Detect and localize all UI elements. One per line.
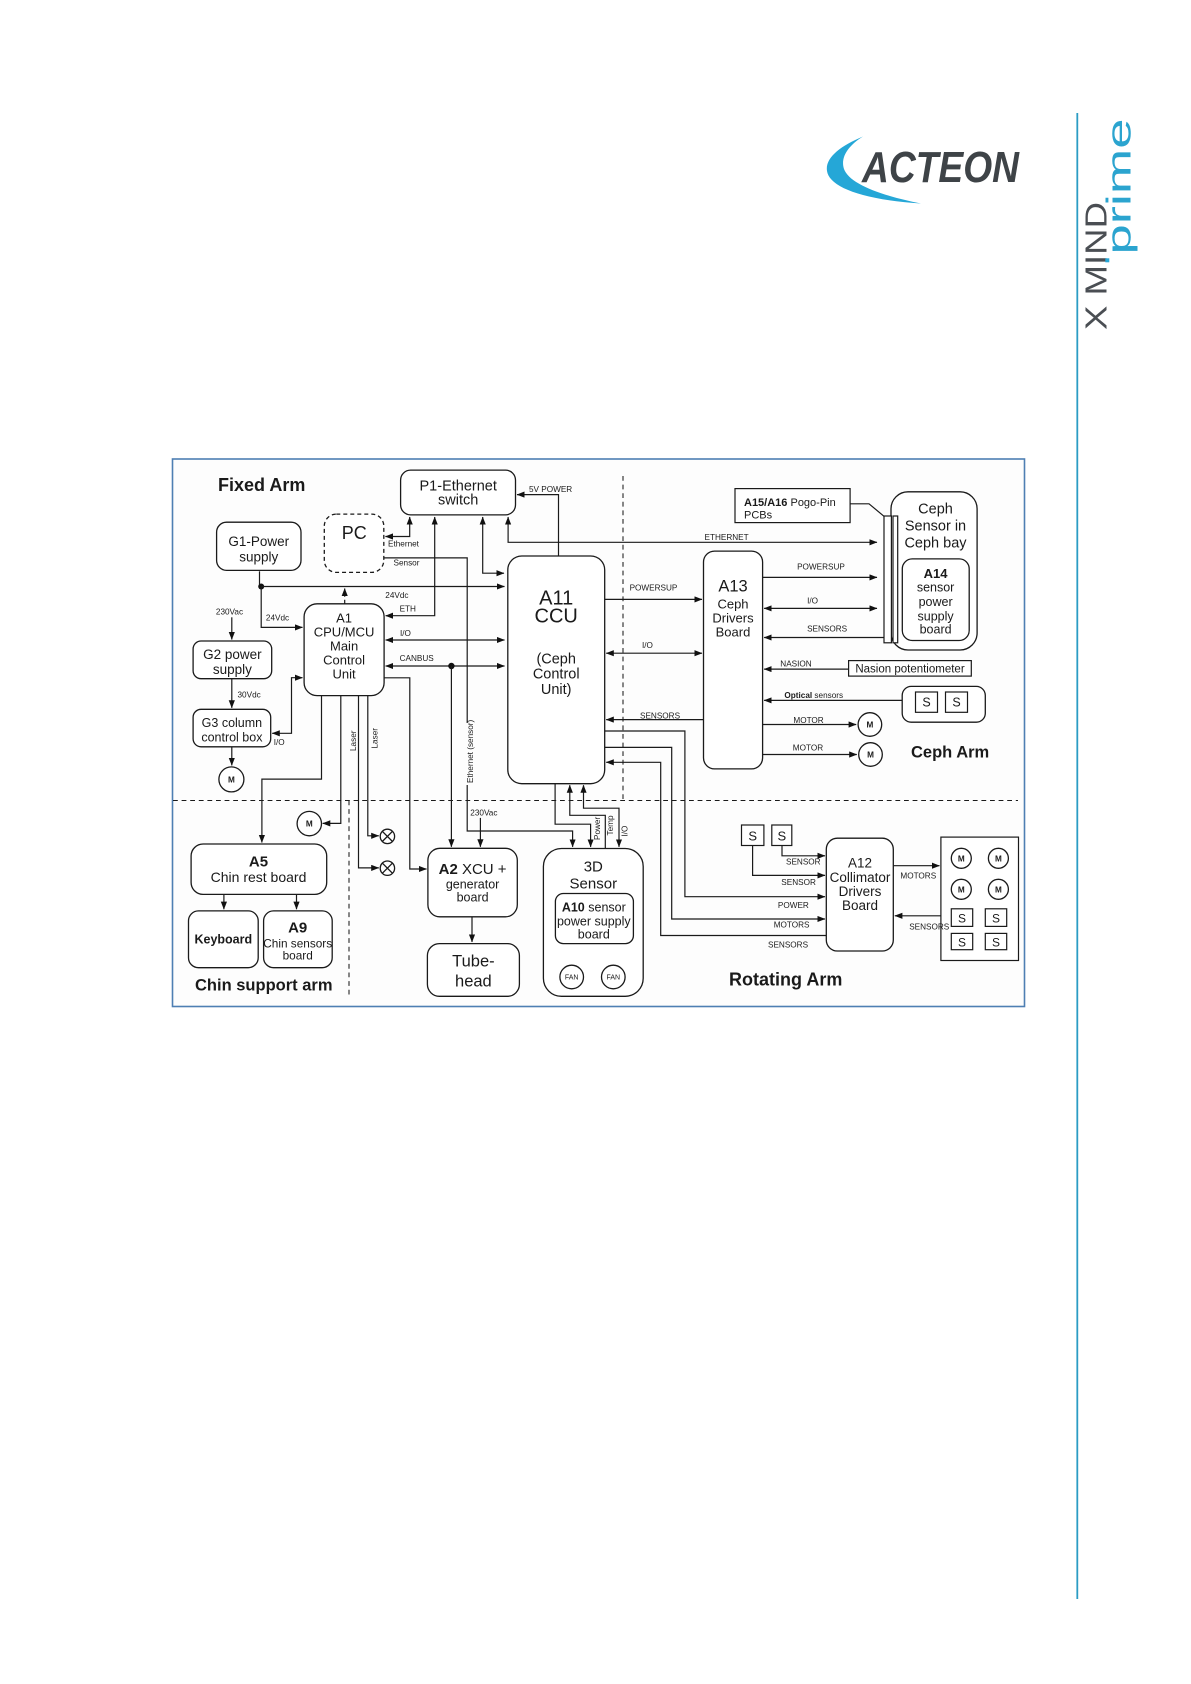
svg-text:(Ceph: (Ceph (536, 652, 576, 668)
wire A5 to Keyboard (223, 894, 225, 909)
wire SENSORS A12 to A11 (606, 762, 826, 935)
wire Power A11 to 3D sensor (555, 784, 591, 847)
label A13 (718, 578, 747, 596)
block A14 sensor power supply board (902, 559, 969, 641)
svg-text:Drivers: Drivers (839, 884, 882, 899)
svg-text:24Vdc: 24Vdc (385, 591, 408, 600)
block A13 Ceph Drivers Board (704, 551, 763, 769)
svg-text:power supply: power supply (557, 915, 631, 929)
dashed separator vertical ceph (622, 476, 624, 801)
svg-text:M: M (995, 854, 1002, 863)
svg-text:A5: A5 (249, 854, 268, 871)
label A13 Ceph Drivers Board (712, 597, 754, 640)
wire 24Vdc junction to A11 (261, 586, 504, 588)
svg-text:Power: Power (593, 817, 602, 840)
svg-text:A13: A13 (718, 578, 747, 596)
wire POWER A11 to A12 (605, 731, 825, 897)
svg-text:Drivers: Drivers (712, 610, 754, 625)
svg-text:Keyboard: Keyboard (194, 933, 252, 947)
wire CANBUS A1 to A11 (386, 665, 505, 667)
svg-text:Sensor in: Sensor in (905, 519, 966, 535)
svg-text:sensor: sensor (917, 581, 955, 595)
wire Ethernet PC to P1 (385, 517, 409, 537)
svg-text:3D: 3D (584, 859, 603, 876)
svg-text:ETH: ETH (400, 605, 416, 614)
wire SENSORS sensor group to A12 (895, 915, 941, 917)
group S sensor 3 (951, 933, 972, 949)
svg-text:supply: supply (213, 662, 252, 677)
svg-text:S: S (777, 829, 786, 844)
svg-text:Unit: Unit (333, 667, 357, 682)
label A2 XCU + generator board (439, 861, 507, 905)
FAN 2 (602, 965, 626, 989)
svg-text:ACTEON: ACTEON (861, 143, 1020, 192)
svg-text:G2 power: G2 power (203, 647, 262, 662)
svg-text:Ceph: Ceph (918, 502, 953, 518)
dashed separator vertical chin (348, 801, 350, 996)
svg-text:A9: A9 (288, 920, 307, 937)
ceph optical sensor S 2 (946, 692, 968, 712)
label G1-Power supply (228, 534, 289, 565)
block A11 CCU (508, 556, 605, 784)
svg-text:control box: control box (201, 731, 263, 745)
svg-text:M: M (958, 885, 965, 894)
wire A5 to A9 (296, 894, 298, 909)
wire MOTORS A11 to A12 (605, 747, 825, 919)
svg-text:M: M (867, 751, 874, 760)
block A2 XCU generator board (428, 848, 517, 917)
svg-text:Main: Main (330, 639, 358, 654)
wire I/O A11 to A13 (606, 652, 702, 654)
svg-text:POWER: POWER (778, 901, 809, 910)
svg-text:Ceph Arm: Ceph Arm (911, 744, 989, 762)
node 24Vdc junction (258, 584, 264, 590)
svg-text:FAN: FAN (565, 975, 579, 982)
label P1-Ethernet switch (420, 479, 497, 509)
svg-text:Nasion potentiometer: Nasion potentiometer (855, 664, 964, 676)
svg-text:5V POWER: 5V POWER (529, 485, 572, 494)
vertical cyan rule (1076, 113, 1078, 1599)
block A12 Collimator Drivers Board (826, 838, 893, 951)
block Keyboard (189, 911, 259, 968)
svg-text:A1: A1 (336, 611, 352, 626)
svg-text:Ethernet (sensor): Ethernet (sensor) (466, 719, 475, 783)
svg-text:G1-Power: G1-Power (228, 534, 289, 549)
group motor M 4 (988, 879, 1008, 899)
group S sensor 4 (985, 933, 1006, 949)
svg-text:FAN: FAN (606, 975, 620, 982)
wire Laser A1 to upper lamp (368, 696, 379, 836)
svg-text:30Vdc: 30Vdc (238, 691, 261, 700)
wire A10 to FAN 2 (612, 944, 614, 964)
wire NASION potentiometer to A13 (764, 668, 849, 670)
node CANBUS junction (448, 663, 454, 669)
svg-text:board: board (457, 891, 489, 905)
svg-text:head: head (455, 973, 492, 991)
label G2 power supply (203, 647, 262, 677)
block A5 Chin rest board (191, 844, 327, 894)
wire A10 to FAN 1 (571, 944, 573, 964)
svg-text:Ethernet: Ethernet (388, 540, 420, 549)
diagram outer border (173, 459, 1025, 1007)
svg-text:Board: Board (716, 624, 751, 639)
block P1 Ethernet switch (401, 470, 516, 515)
laser lamp upper (380, 829, 394, 843)
svg-text:board: board (578, 928, 610, 942)
wire MOTOR A13 to ceph motor 1 (763, 724, 857, 726)
svg-text:A14: A14 (924, 566, 949, 581)
svg-text:prime: prime (1101, 119, 1139, 255)
wire 30Vdc G2 to G3 (231, 679, 233, 708)
svg-text:board: board (283, 949, 313, 963)
block Ceph Sensor in Ceph bay (891, 492, 977, 650)
svg-text:supply: supply (918, 610, 955, 624)
svg-text:I/O: I/O (620, 826, 629, 837)
label Tube-head (452, 953, 495, 991)
svg-text:Sensor: Sensor (394, 559, 420, 568)
group S sensor 2 (985, 909, 1006, 927)
svg-text:Control: Control (533, 667, 580, 683)
wire A15/A16 leader to pogo pins (850, 504, 884, 517)
wire G1 to 24Vdc junction (259, 571, 261, 586)
wire MOTOR A13 to ceph motor 2 (763, 754, 857, 756)
pogo pin PCB bar 2 (893, 516, 898, 643)
wire A1 to chin motor (323, 696, 341, 824)
svg-text:MOTOR: MOTOR (793, 744, 823, 753)
svg-text:M: M (866, 721, 873, 730)
label A14 sensor power supply board (917, 566, 955, 637)
svg-text:M: M (995, 885, 1002, 894)
wire Temp 3D sensor to A11 (570, 785, 606, 848)
block Nasion potentiometer (849, 661, 972, 677)
wire I/O A11 and 3D sensor (584, 785, 620, 847)
svg-text:A12: A12 (848, 856, 872, 871)
svg-text:A15/A16 Pogo-Pin: A15/A16 Pogo-Pin (744, 497, 836, 509)
svg-text:PC: PC (342, 523, 367, 543)
svg-text:Ceph: Ceph (717, 597, 748, 612)
group motor M 2 (988, 848, 1008, 868)
svg-text:S: S (958, 912, 966, 926)
wire 5V POWER A11 to P1 (517, 495, 559, 556)
block G1 Power supply (217, 522, 301, 570)
wire CANBUS junction to A2 (450, 666, 452, 847)
wire collimator S sensor 1 to A12 (753, 846, 825, 876)
svg-text:Chin support arm: Chin support arm (195, 977, 333, 995)
svg-text:SENSORS: SENSORS (640, 712, 681, 721)
svg-text:Control: Control (323, 653, 365, 668)
svg-text:Laser: Laser (371, 728, 380, 749)
svg-text:Collimator: Collimator (830, 870, 891, 885)
svg-text:S: S (958, 936, 966, 950)
svg-text:Chin rest board: Chin rest board (211, 869, 307, 885)
wire MOTORS A12 to motor group (893, 865, 939, 867)
ceph optical sensor S 1 (916, 692, 938, 712)
wire 230Vac into G2 (231, 617, 233, 639)
svg-text:S: S (992, 936, 1000, 950)
ceph motor M 1 (858, 713, 882, 737)
wire 24Vdc junction to A1 (261, 587, 302, 628)
wire ETHERNET P1 to pogo pins (508, 517, 877, 542)
wire G3 to column motor (231, 747, 233, 766)
svg-text:SENSOR: SENSOR (786, 858, 821, 867)
svg-text:Unit): Unit) (541, 682, 572, 698)
svg-text:S: S (748, 829, 757, 844)
svg-text:CCU: CCU (535, 606, 578, 628)
X MIND i dot cyan (1105, 258, 1109, 262)
label A9 Chin sensors board (263, 920, 332, 963)
block PC (dashed) (324, 514, 384, 572)
svg-text:generator: generator (446, 878, 500, 892)
group motor M 3 (951, 879, 971, 899)
svg-text:Laser: Laser (349, 730, 358, 751)
svg-text:SENSOR: SENSOR (781, 878, 816, 887)
svg-text:SENSORS: SENSORS (909, 923, 950, 932)
svg-text:PCBs: PCBs (744, 510, 773, 522)
wire ETH A1 to P1 (386, 517, 435, 616)
svg-text:I/O: I/O (400, 629, 411, 638)
svg-text:power: power (919, 595, 953, 609)
wire POWERSUP A11 to A13 (605, 598, 702, 600)
svg-text:I/O: I/O (274, 738, 285, 747)
wire I/O A1 to A11 (386, 639, 505, 641)
svg-text:Sensor: Sensor (570, 876, 618, 893)
wire P1 to A11 (483, 517, 504, 573)
svg-text:24Vdc: 24Vdc (266, 614, 289, 623)
svg-text:S: S (992, 912, 1000, 926)
wire A1 to A5 (262, 696, 322, 843)
svg-text:Ceph bay: Ceph bay (904, 536, 967, 552)
group S sensor 1 (951, 909, 972, 927)
wire I/O A13 to pogo pins (764, 607, 877, 609)
svg-text:POWERSUP: POWERSUP (630, 584, 678, 593)
svg-text:I/O: I/O (807, 597, 818, 606)
wire Optical sensors to A13 (764, 699, 902, 701)
pogo pin PCB bar 1 (884, 516, 891, 643)
column motor M (219, 767, 244, 792)
block G2 power supply (193, 641, 272, 679)
svg-text:I/O: I/O (642, 641, 653, 650)
svg-text:MOTOR: MOTOR (793, 716, 823, 725)
svg-text:S: S (922, 696, 930, 710)
svg-text:POWERSUP: POWERSUP (797, 563, 845, 572)
label 3D Sensor (570, 859, 618, 893)
svg-text:Rotating Arm: Rotating Arm (729, 970, 842, 990)
label A11 Ceph Control Unit (533, 652, 580, 699)
label A15/A16 Pogo-Pin PCBs (744, 497, 836, 522)
svg-text:M: M (306, 820, 313, 829)
net label Ethernet (sensor) (465, 723, 475, 785)
wire I/O G3 to A1 (272, 678, 302, 734)
label Ceph Sensor in Ceph bay (904, 502, 967, 552)
block A9 Chin sensors board (264, 911, 333, 968)
dashed separator horizontal (173, 800, 1018, 802)
svg-text:board: board (920, 623, 952, 637)
label A12 Collimator Drivers Board (830, 856, 891, 913)
svg-text:SENSORS: SENSORS (807, 625, 848, 634)
label A10 sensor power supply board (557, 901, 631, 942)
wire Sensor PC to 3D sensor (Ethernet sensor) (384, 558, 573, 847)
collimator S sensor 2 box (772, 825, 792, 846)
svg-text:M: M (228, 775, 235, 784)
collimator S sensor 1 box (742, 825, 764, 846)
block 3D Sensor (543, 849, 643, 997)
svg-text:G3 column: G3 column (202, 716, 262, 730)
svg-text:CPU/MCU: CPU/MCU (314, 625, 375, 640)
svg-text:ETHERNET: ETHERNET (705, 533, 749, 542)
ACTEON logo swoosh (827, 137, 921, 204)
svg-text:Tube-: Tube- (452, 953, 495, 971)
label A11 CCU (535, 588, 578, 628)
svg-text:230Vac: 230Vac (216, 608, 243, 617)
block A10 sensor power supply board (555, 894, 633, 944)
svg-text:S: S (952, 696, 960, 710)
chin motor M (297, 811, 321, 835)
wire Laser A1 to lower lamp (359, 696, 379, 868)
svg-text:MOTORS: MOTORS (774, 921, 810, 930)
wire collimator S sensor 2 to A12 (782, 846, 825, 856)
ceph motor M 2 (859, 743, 883, 767)
rotating motor sensor group box (941, 837, 1019, 960)
wire 230Vac into A2 (479, 818, 481, 847)
svg-text:Board: Board (842, 898, 878, 913)
svg-text:supply: supply (239, 550, 278, 565)
svg-text:Temp: Temp (606, 815, 615, 835)
label G3 column control box (201, 716, 263, 745)
svg-text:M: M (958, 854, 965, 863)
svg-text:A10 sensor: A10 sensor (562, 901, 626, 915)
svg-text:SENSORS: SENSORS (768, 941, 809, 950)
block G3 column control box (193, 709, 271, 747)
label A1 CPU/MCU Main Control Unit (314, 611, 375, 682)
svg-text:A2 XCU +: A2 XCU + (439, 861, 507, 878)
block ceph optical sensors (902, 686, 985, 722)
svg-text:NASION: NASION (780, 660, 811, 669)
block A15 A16 Pogo-Pin PCBs (735, 489, 850, 523)
wire SENSORS pogo pins to A13 (764, 637, 884, 639)
label A5 Chin rest board (211, 854, 307, 886)
svg-text:Optical sensors: Optical sensors (784, 691, 843, 700)
wire A1 top to 24Vdc line dashed (344, 589, 346, 604)
svg-text:MOTORS: MOTORS (900, 872, 936, 881)
wire POWERSUP A13 to pogo pins (763, 576, 877, 578)
wire A1 to A2 (384, 678, 426, 869)
wire SENSORS A13 to A11 (606, 719, 703, 721)
block Tube-head (427, 944, 519, 997)
svg-text:switch: switch (438, 493, 478, 509)
group motor M 1 (951, 848, 971, 868)
block A1 CPU MCU Main Control Unit (304, 604, 384, 696)
laser lamp lower (380, 861, 394, 875)
svg-text:230Vac: 230Vac (470, 809, 497, 818)
FAN 1 (560, 965, 584, 989)
wire A2 to Tube-head (471, 917, 473, 942)
svg-text:Fixed Arm: Fixed Arm (218, 475, 305, 495)
svg-text:CANBUS: CANBUS (400, 654, 435, 663)
